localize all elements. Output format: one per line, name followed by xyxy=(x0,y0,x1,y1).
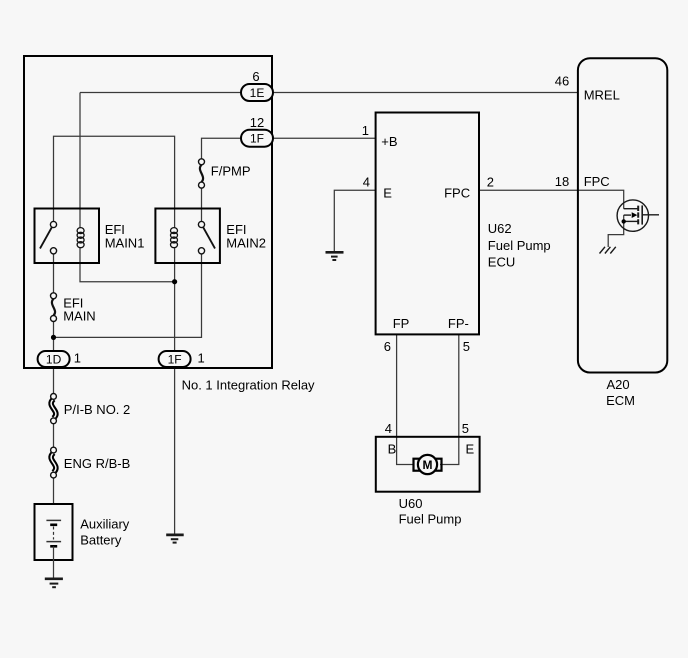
label EFI MAIN fuse xyxy=(63,295,95,323)
wire MAIN2 switch bottom to 1D junction xyxy=(54,251,202,338)
svg-text:E: E xyxy=(466,442,475,457)
svg-text:1: 1 xyxy=(198,350,205,365)
svg-text:ECM: ECM xyxy=(606,393,635,408)
svg-text:2: 2 xyxy=(487,175,494,190)
connector oval 1F pin 12 xyxy=(241,130,273,147)
fusible link ENG R/B-B xyxy=(51,447,57,478)
svg-text:Fuel Pump: Fuel Pump xyxy=(488,238,551,253)
EFI MAIN1 switch xyxy=(40,221,57,254)
wire FP- to motor xyxy=(440,334,459,464)
svg-text:FP-: FP- xyxy=(448,316,469,331)
label EFI MAIN1 xyxy=(105,222,145,251)
fusible link P/I-B NO.2 xyxy=(51,394,57,424)
svg-text:5: 5 xyxy=(463,339,470,354)
svg-text:P/I-B NO. 2: P/I-B NO. 2 xyxy=(64,402,130,417)
relay internal wires group xyxy=(54,93,624,535)
ground (battery) xyxy=(45,579,63,587)
svg-text:6: 6 xyxy=(384,339,391,354)
svg-text:4: 4 xyxy=(363,175,370,190)
chassis ground (mosfet source) xyxy=(600,247,616,254)
svg-text:FP: FP xyxy=(393,316,410,331)
wire U62 E to ground xyxy=(334,190,375,252)
connector oval 1F pin 1 xyxy=(159,351,191,367)
svg-text:+B: +B xyxy=(381,134,397,149)
wire 1E oval to ECM MREL xyxy=(273,92,578,94)
svg-text:FPC: FPC xyxy=(584,174,610,189)
svg-text:MAIN2: MAIN2 xyxy=(226,236,266,251)
fuse EFI MAIN xyxy=(51,293,57,322)
svg-text:ENG R/B-B: ENG R/B-B xyxy=(64,456,130,471)
svg-text:F/PMP: F/PMP xyxy=(211,164,251,179)
EFI MAIN2 coil L xyxy=(171,228,178,248)
A20 ECM box xyxy=(578,58,667,372)
EFI MAIN2 switch xyxy=(198,221,215,254)
wire 1F oval to U62 +B xyxy=(273,137,376,139)
svg-text:No. 1 Integration Relay: No. 1 Integration Relay xyxy=(182,378,315,393)
svg-text:MAIN1: MAIN1 xyxy=(105,236,145,251)
svg-text:Fuel Pump: Fuel Pump xyxy=(399,511,462,526)
svg-text:1D: 1D xyxy=(46,353,62,367)
junction dot A (coils) xyxy=(172,279,177,284)
svg-text:5: 5 xyxy=(462,421,469,436)
label Auxiliary Battery xyxy=(80,516,130,547)
svg-text:1F: 1F xyxy=(250,132,264,146)
mosfet U (ECM driver) xyxy=(617,200,659,231)
svg-text:MREL: MREL xyxy=(584,88,620,103)
wire FP to motor xyxy=(397,334,414,464)
svg-text:A20: A20 xyxy=(607,377,630,392)
svg-text:Battery: Battery xyxy=(80,533,122,548)
svg-text:12: 12 xyxy=(250,115,264,130)
fuse F/PMP xyxy=(199,159,205,188)
label EFI MAIN2 xyxy=(226,222,266,251)
label U62 Fuel Pump ECU xyxy=(488,221,551,270)
wire 1F(12) to F/PMP to MAIN2 switch xyxy=(202,138,242,224)
svg-text:U62: U62 xyxy=(488,221,512,236)
wire 1D to battery chain xyxy=(53,367,55,504)
svg-text:4: 4 xyxy=(385,421,392,436)
svg-text:M: M xyxy=(423,458,433,472)
relay EFI MAIN1 box xyxy=(35,209,100,264)
svg-text:B: B xyxy=(388,442,397,457)
EFI MAIN1 coil L xyxy=(77,228,84,248)
svg-text:U60: U60 xyxy=(399,496,423,511)
wire 1E to MAIN1 coil (horizontal+vertical) xyxy=(80,93,241,228)
relay EFI MAIN2 box xyxy=(155,209,220,264)
svg-text:Auxiliary: Auxiliary xyxy=(80,516,130,531)
auxiliary battery xyxy=(35,504,73,579)
svg-text:6: 6 xyxy=(252,69,259,84)
label U60 Fuel Pump xyxy=(399,496,462,526)
svg-text:FPC: FPC xyxy=(444,185,470,200)
connector oval 1E pin 6 xyxy=(241,84,273,101)
wire bus MAIN1 switch top to MAIN2 coil top xyxy=(54,136,175,228)
No.1 Integration Relay box xyxy=(24,56,272,368)
connector oval 1D pin 1 xyxy=(38,351,70,367)
svg-text:46: 46 xyxy=(555,74,569,89)
junction dot B (1D) xyxy=(51,335,56,340)
ground (1F wire) xyxy=(166,535,184,543)
wire MAIN1 switch bottom through EFI MAIN fuse to 1D xyxy=(53,251,55,351)
svg-text:1: 1 xyxy=(362,123,369,138)
svg-text:1E: 1E xyxy=(250,86,265,100)
wire MAIN1 coil bottom to junction A xyxy=(80,247,175,281)
U60 Fuel Pump box xyxy=(376,437,480,492)
svg-text:18: 18 xyxy=(555,174,569,189)
wire mosfet source to chassis ground xyxy=(608,215,624,247)
ground (U62 E wire) xyxy=(326,252,344,260)
svg-text:ECU: ECU xyxy=(488,255,515,270)
wire MAIN2 coil bottom to 1F(1) oval xyxy=(174,247,176,351)
svg-text:MAIN: MAIN xyxy=(63,309,95,324)
motor M xyxy=(414,455,442,474)
label A20 ECM xyxy=(606,377,635,408)
wire 1F(1) to ground xyxy=(174,367,176,535)
svg-text:E: E xyxy=(383,185,392,200)
wire U62 FPC to ECM mosfet drain xyxy=(479,190,624,208)
U62 Fuel Pump ECU box xyxy=(376,113,479,335)
svg-text:1F: 1F xyxy=(168,353,182,367)
svg-text:1: 1 xyxy=(74,350,81,365)
